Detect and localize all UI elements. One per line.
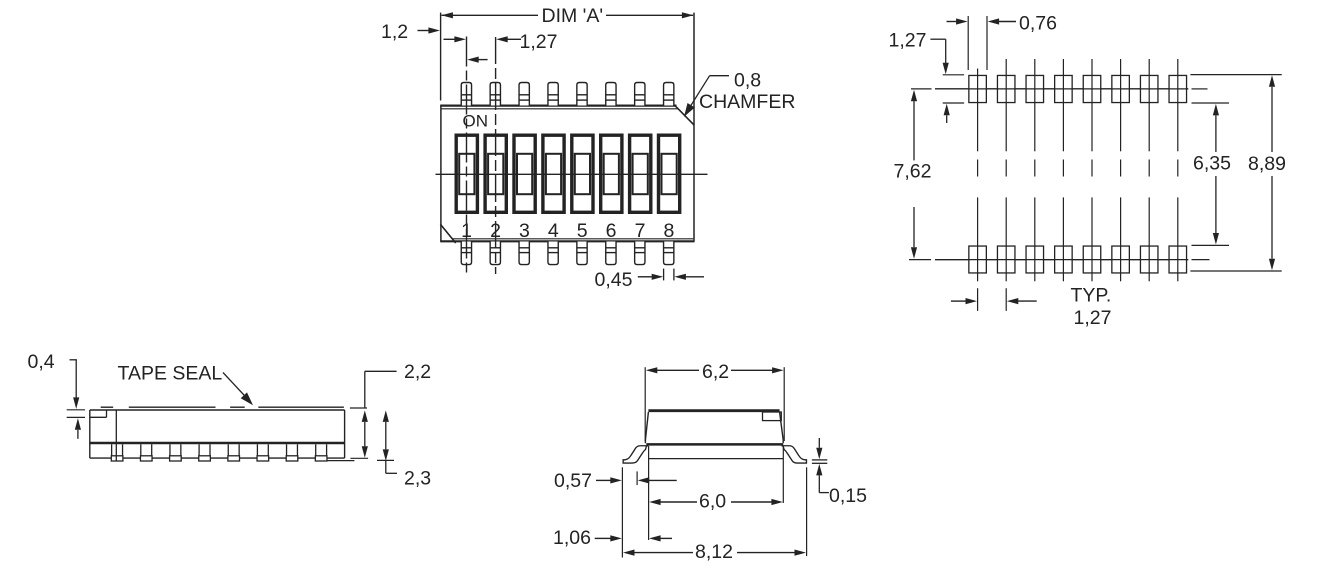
svg-text:0,15: 0,15 <box>829 485 867 507</box>
svg-text:1,27: 1,27 <box>1074 307 1112 329</box>
svg-text:0,57: 0,57 <box>554 470 592 492</box>
svg-text:TYP.: TYP. <box>1071 284 1112 306</box>
svg-text:1,27: 1,27 <box>520 31 558 53</box>
svg-text:7: 7 <box>635 220 646 242</box>
svg-text:0,4: 0,4 <box>28 351 55 373</box>
svg-text:1,27: 1,27 <box>889 29 927 51</box>
svg-text:1,2: 1,2 <box>381 21 408 43</box>
svg-text:2,3: 2,3 <box>404 468 431 490</box>
svg-text:8,12: 8,12 <box>695 541 733 563</box>
svg-text:4: 4 <box>548 220 559 242</box>
svg-text:8: 8 <box>663 220 674 242</box>
svg-text:8,89: 8,89 <box>1248 153 1286 175</box>
svg-text:6: 6 <box>606 220 617 242</box>
svg-text:0,8: 0,8 <box>734 70 761 92</box>
svg-text:3: 3 <box>519 220 530 242</box>
svg-text:7,62: 7,62 <box>894 160 932 182</box>
svg-text:TAPE SEAL: TAPE SEAL <box>118 363 223 385</box>
svg-text:6,2: 6,2 <box>702 361 729 383</box>
svg-text:6,0: 6,0 <box>699 490 726 512</box>
svg-text:CHAMFER: CHAMFER <box>699 91 795 113</box>
svg-text:0,76: 0,76 <box>1019 13 1057 35</box>
svg-text:5: 5 <box>577 220 588 242</box>
svg-text:0,45: 0,45 <box>595 269 633 291</box>
svg-text:6,35: 6,35 <box>1193 152 1231 174</box>
svg-text:DIM 'A': DIM 'A' <box>542 5 604 27</box>
svg-text:2,2: 2,2 <box>404 361 431 383</box>
svg-text:1,06: 1,06 <box>553 527 591 549</box>
